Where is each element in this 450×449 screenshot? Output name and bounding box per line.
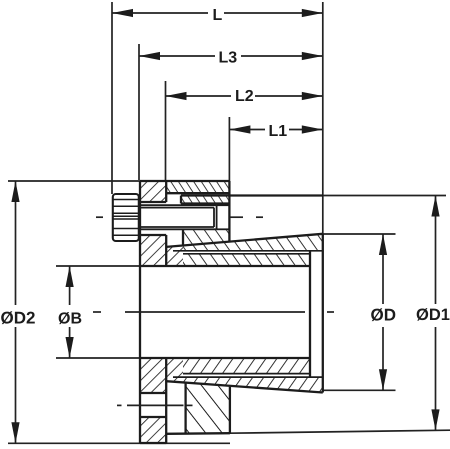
svg-text:ØB: ØB [58,311,82,328]
inner wall bottom [183,358,310,374]
flange right face segments [165,181,167,202]
end wall left vline [309,251,311,377]
OD2 dimension line [15,181,17,305]
chamber gap walls (thin) [173,251,323,377]
svg-text:ØD1: ØD1 [416,306,450,324]
outer wall inner line bottom [173,376,323,378]
nut strip top [181,196,229,204]
screw head top [113,194,139,241]
dimension line L1 [229,129,265,131]
taper top [166,234,323,247]
inner wall outer line bottom [183,373,310,375]
dimension line L3 [139,55,215,57]
nut strip bottom edge [181,202,229,204]
OD dimension line [382,234,384,304]
outer wall inner line top [173,250,323,252]
inner wall top [183,254,310,266]
bore bottom edge [140,357,310,359]
part top edge [140,180,229,182]
flange bottom edge [140,442,166,444]
svg-text:ØD2: ØD2 [1,309,36,328]
sleeve end right vline [322,234,324,393]
extension line L2 (flange right face) [165,81,167,180]
flange above bore [140,235,166,266]
OD1 extension lines [323,195,446,197]
extension line L1 (thread bottom) [228,117,230,196]
OD1 top edge (sleeve cylinder) [181,194,323,196]
extension line right (sleeve end) [322,2,324,234]
extension line L left (screw head face) [111,2,113,194]
OD extension lines [323,233,396,235]
svg-text:L1: L1 [269,123,288,140]
boss block edges bottom [184,383,186,433]
flange hole bottom edges [140,392,166,394]
thread boss block bottom [186,383,230,433]
flange hole top edges [140,201,166,203]
left wedge top (flange-side continuation) [166,246,183,267]
flange below bore [140,358,166,393]
nut left face top [180,196,182,204]
flange left face [139,181,141,443]
svg-text:L3: L3 [219,50,238,67]
dimension line L2 [166,95,232,97]
screw thread top [140,205,229,229]
bottom hole axis centerline [117,404,193,406]
OB dimension line [69,266,71,305]
ring band top [166,181,229,193]
screw axis top [96,216,263,218]
extension line L3 (flange left face) [138,44,140,180]
svg-text:ØD: ØD [371,306,397,325]
outer wall top (taper) [166,234,323,251]
inner wall outer line top [183,253,310,255]
dimension line L [112,12,208,14]
flange bottom section [140,417,166,444]
flange top section [140,181,166,202]
svg-text:L: L [213,7,223,24]
outer wall bottom [166,377,323,392]
taper bottom [166,381,323,392]
bore top edge [140,265,310,267]
svg-text:L2: L2 [235,88,254,105]
ring band bottom edge top [166,192,229,194]
OD1 dimension line [435,196,437,305]
boss lower top (between screw and taper) [183,229,229,245]
OB extension lines [56,265,140,267]
boss left face top [182,229,184,245]
OD2 extension top [8,180,140,182]
hole bottom face top [228,181,230,242]
left wedge bottom [166,358,183,383]
OD2 extension bottom [8,442,230,444]
